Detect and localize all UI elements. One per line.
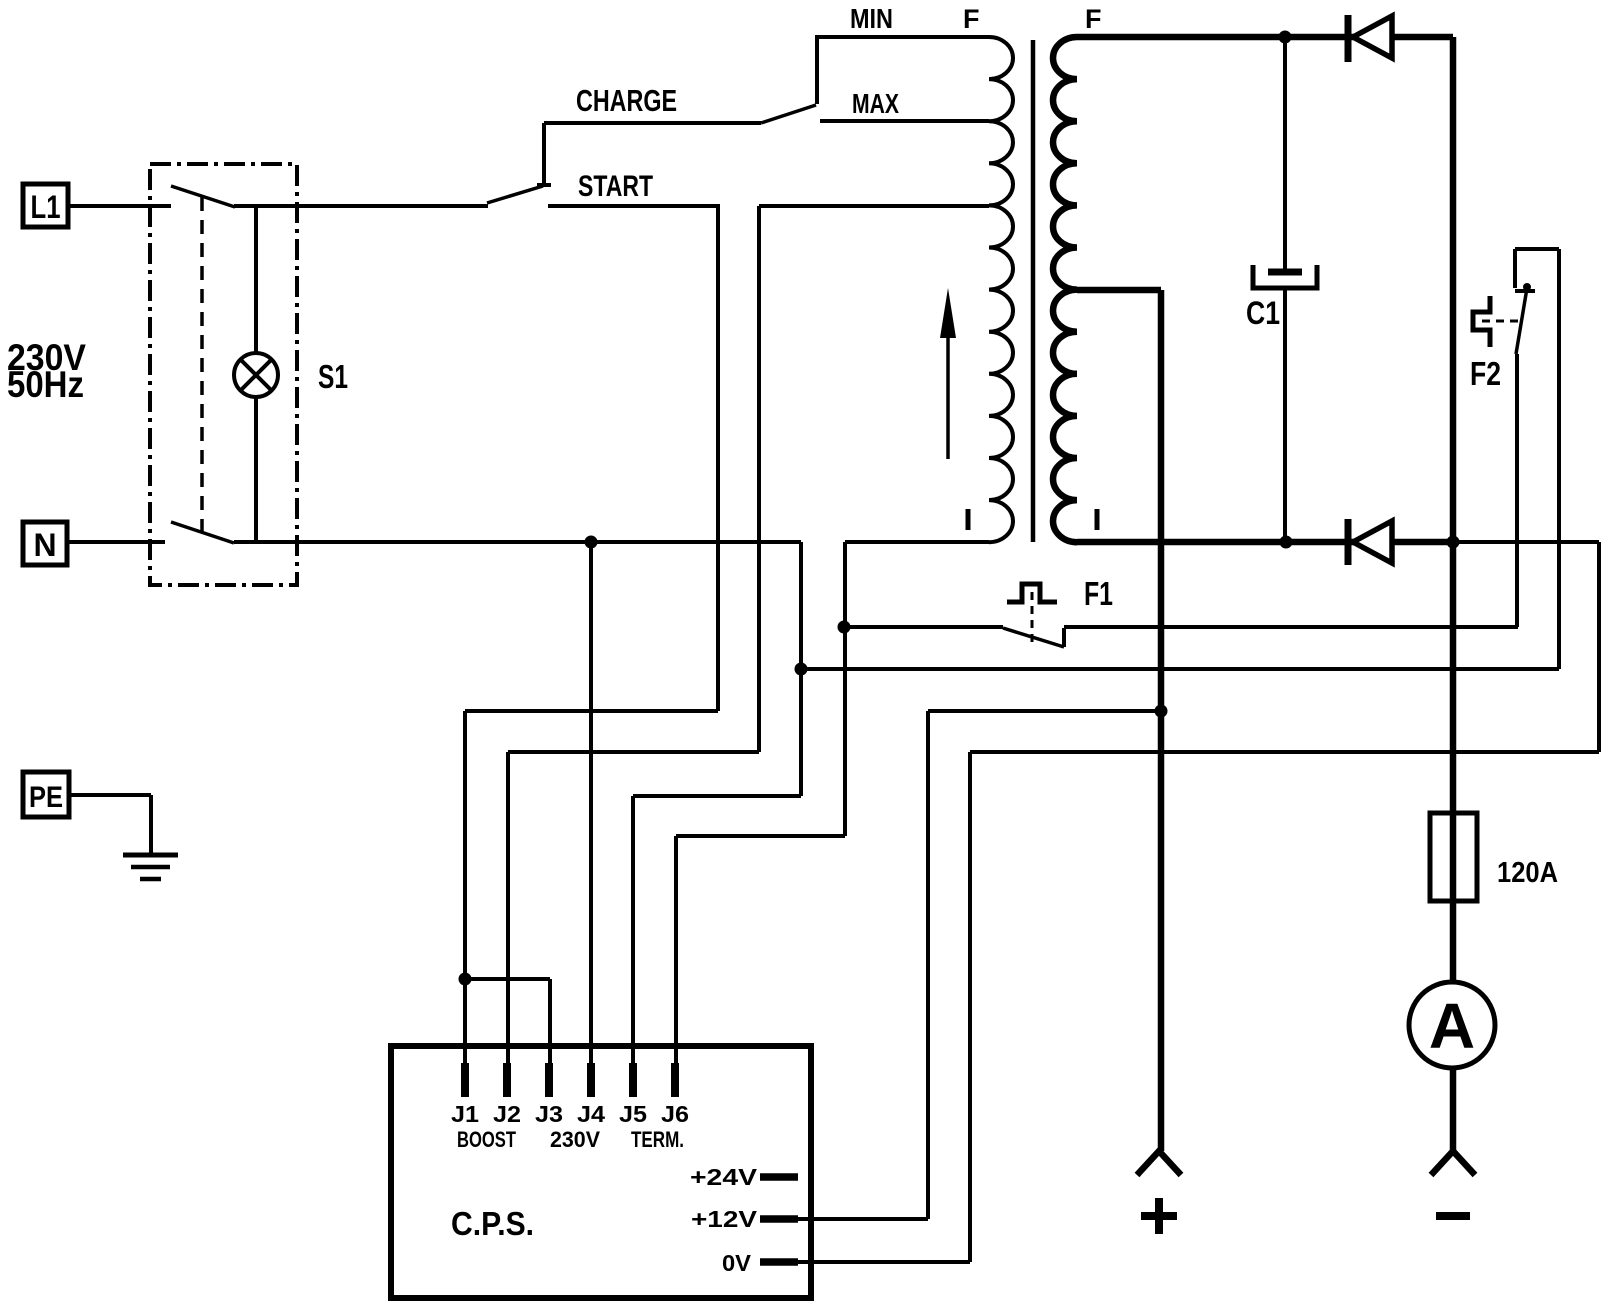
svg-text:F1: F1: [1084, 575, 1113, 612]
svg-text:A: A: [1429, 990, 1475, 1062]
svg-text:L1: L1: [31, 189, 61, 225]
svg-text:PE: PE: [29, 781, 63, 814]
svg-text:BOOST: BOOST: [457, 1127, 516, 1152]
svg-text:J1: J1: [451, 1101, 479, 1127]
svg-text:TERM.: TERM.: [631, 1127, 684, 1152]
svg-text:J4: J4: [577, 1101, 605, 1127]
svg-text:C1: C1: [1246, 295, 1280, 331]
svg-text:S1: S1: [318, 358, 348, 395]
svg-text:230V: 230V: [550, 1127, 600, 1152]
svg-text:CHARGE: CHARGE: [576, 83, 677, 118]
svg-text:N: N: [33, 527, 56, 563]
svg-text:J6: J6: [661, 1101, 689, 1127]
svg-text:F: F: [963, 4, 980, 34]
svg-text:J3: J3: [535, 1101, 563, 1127]
svg-text:+24V: +24V: [690, 1164, 758, 1190]
svg-text:F: F: [1085, 4, 1102, 34]
svg-text:120A: 120A: [1497, 857, 1558, 889]
svg-text:+12V: +12V: [691, 1206, 758, 1232]
svg-text:MIN: MIN: [850, 3, 893, 34]
svg-text:50Hz: 50Hz: [7, 364, 84, 405]
svg-text:START: START: [578, 170, 653, 203]
svg-text:MAX: MAX: [852, 88, 899, 119]
svg-text:0V: 0V: [722, 1250, 752, 1276]
svg-text:C.P.S.: C.P.S.: [451, 1205, 534, 1242]
svg-text:J2: J2: [493, 1101, 521, 1127]
svg-text:F2: F2: [1470, 355, 1501, 392]
svg-text:J5: J5: [619, 1101, 647, 1127]
